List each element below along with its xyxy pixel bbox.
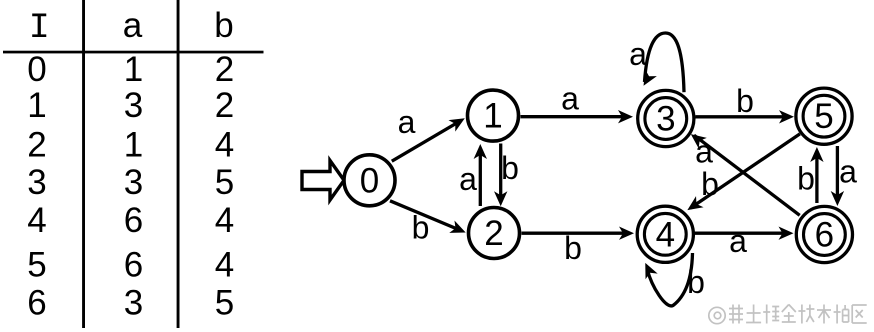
svg-text:6: 6 bbox=[27, 284, 46, 323]
svg-text:3: 3 bbox=[656, 100, 675, 139]
edge 6->5 (up) bbox=[810, 147, 823, 203]
edge 6->3 (diagonal) bbox=[687, 129, 800, 216]
self loop state 3 bbox=[638, 33, 684, 92]
svg-text:b: b bbox=[412, 210, 430, 246]
svg-text:0: 0 bbox=[360, 161, 379, 200]
state 3 (accepting) bbox=[638, 90, 694, 146]
table column line 1 bbox=[82, 0, 85, 328]
state 0 bbox=[344, 155, 395, 206]
svg-text:5: 5 bbox=[215, 284, 234, 323]
svg-text:a: a bbox=[398, 104, 416, 140]
svg-text:5: 5 bbox=[215, 163, 234, 202]
svg-text:4: 4 bbox=[27, 201, 46, 240]
svg-text:6: 6 bbox=[124, 246, 143, 285]
pseudo CJK glyphs bbox=[729, 305, 743, 324]
edge 0->2 bbox=[390, 201, 468, 239]
svg-text:0: 0 bbox=[27, 50, 46, 89]
table header underline bbox=[3, 51, 264, 54]
svg-text:1: 1 bbox=[483, 97, 502, 136]
svg-text:a: a bbox=[459, 161, 477, 197]
edge 5->4 (diagonal) bbox=[684, 134, 800, 216]
svg-text:3: 3 bbox=[124, 86, 143, 125]
svg-text:3: 3 bbox=[124, 284, 143, 323]
svg-text:6: 6 bbox=[815, 216, 834, 255]
svg-text:a: a bbox=[695, 134, 713, 170]
edge 0->1 bbox=[392, 112, 468, 161]
svg-text:a: a bbox=[561, 81, 579, 117]
svg-text:2: 2 bbox=[215, 50, 234, 89]
svg-text:4: 4 bbox=[656, 215, 675, 254]
svg-text:2: 2 bbox=[484, 214, 503, 253]
start arrow bbox=[302, 161, 344, 201]
svg-text:3: 3 bbox=[124, 163, 143, 202]
svg-text:b: b bbox=[797, 161, 815, 197]
svg-text:a: a bbox=[729, 223, 747, 259]
state 6 (accepting) bbox=[796, 206, 852, 262]
watermark @稀土掘金技术社区 bbox=[709, 307, 725, 323]
svg-text:1: 1 bbox=[27, 86, 46, 125]
svg-text:a: a bbox=[629, 36, 647, 72]
edge 1->2 (down) bbox=[494, 144, 507, 207]
state 2 bbox=[469, 208, 520, 259]
svg-text:1: 1 bbox=[124, 50, 143, 89]
state 5 (accepting) bbox=[796, 88, 852, 144]
svg-text:a: a bbox=[123, 6, 143, 45]
svg-text:6: 6 bbox=[124, 201, 143, 240]
svg-text:1: 1 bbox=[124, 126, 143, 165]
svg-text:b: b bbox=[701, 166, 719, 202]
svg-text:4: 4 bbox=[215, 126, 234, 165]
svg-text:b: b bbox=[564, 230, 582, 266]
svg-text:4: 4 bbox=[215, 201, 234, 240]
edge 2->4 bbox=[522, 227, 635, 240]
svg-text:b: b bbox=[736, 83, 754, 119]
state 4 (accepting) bbox=[637, 206, 693, 262]
svg-text:2: 2 bbox=[215, 86, 234, 125]
svg-text:3: 3 bbox=[27, 163, 46, 202]
svg-text:b: b bbox=[214, 6, 233, 45]
svg-text:I: I bbox=[29, 8, 50, 48]
svg-text:b: b bbox=[687, 264, 705, 300]
edge 3->5 bbox=[696, 110, 795, 123]
edge 4->6 bbox=[695, 227, 794, 240]
edge 1->3 bbox=[521, 110, 634, 123]
svg-text:a: a bbox=[839, 154, 857, 190]
edge 2->1 (up) bbox=[474, 144, 487, 206]
svg-text:2: 2 bbox=[27, 126, 46, 165]
edge 5->6 (down) bbox=[831, 146, 844, 206]
svg-text:4: 4 bbox=[215, 246, 234, 285]
svg-text:5: 5 bbox=[27, 246, 46, 285]
state 1 bbox=[468, 90, 519, 141]
svg-text:b: b bbox=[501, 150, 519, 186]
self loop state 4 bbox=[639, 253, 692, 306]
svg-text:5: 5 bbox=[814, 97, 833, 136]
table column line 2 bbox=[177, 0, 180, 328]
